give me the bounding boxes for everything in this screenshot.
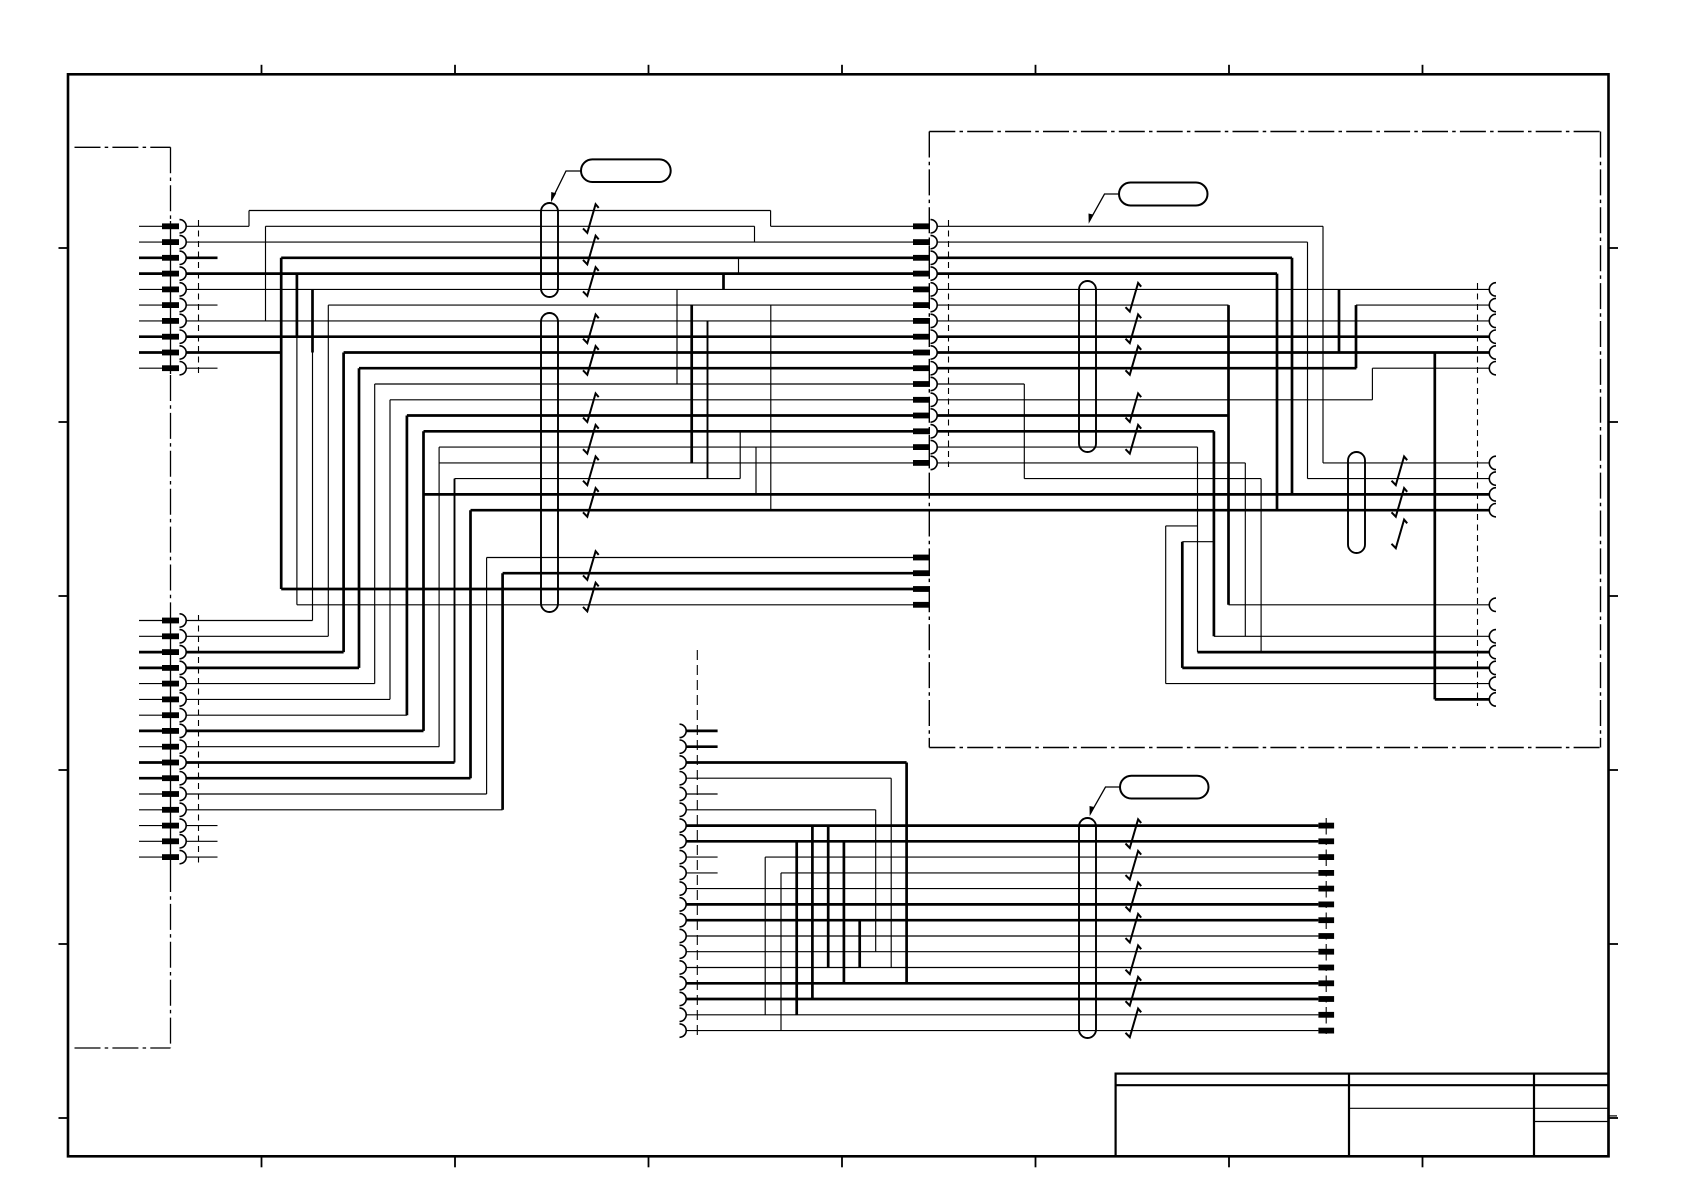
wire net44 P3.16 drop [937,463,1246,636]
cable boundary dashed line at P4 [696,650,698,1040]
wire net58 P4.14-P5.8 [686,935,1318,937]
wire stub P4.2 [686,745,718,748]
cable boundary dashed line at P1 [198,220,200,374]
wire net62 P4.15-P5.9 [686,951,1318,953]
wire net49 P4.4 crossover [686,778,891,967]
connector P2 (left-bottom, 16 pins) [139,614,186,866]
wire net40 P3.12 right [937,399,1373,401]
wire net7 row23 [281,588,913,591]
wire net64 P4.17-P5.11 [686,982,1318,985]
bus marks middle column [1126,283,1142,454]
wire net33 v1356 jumper [1355,305,1358,368]
wire net55 P4.11-P5.5 [686,888,1318,890]
wire net14 P2.3-row8 [344,353,913,653]
wire net43 P3.15-J4.2 [937,447,1490,652]
wire net29 P3.4-row18 [937,274,1278,511]
wire P2 pin12 lead run [186,793,487,795]
wire net4 P1.4-P3.4 [186,272,914,275]
wire net38 v1372 jumper [1371,368,1373,400]
wire P2 pin9 lead run [186,746,440,748]
wire stub P4.5 [686,793,718,795]
wire net63 P4.16-P5.10 [686,967,1318,969]
wire net42 P3.14-J4.1 [937,431,1490,636]
wire net35 P3.8-J1.4 [937,335,1490,338]
connector J4 arcs (right, 5 pins) [1489,630,1496,707]
wire net41 P3.13-J3 [937,305,1490,605]
wire net3 P1.7 riser to row0 [186,226,755,321]
wire stub P4.1 [686,730,718,733]
wire P2 pin10 lead run [186,761,455,764]
wire step cascade x754 [754,226,756,242]
wire net56 P4.12-P5.6 [686,903,1318,906]
wire net26 row7 [297,335,913,338]
wire net27 P3.2-J2.2 [937,242,1490,479]
connector P5 (bottom-right, 14 pins) [1318,823,1334,1034]
wire step cascade x738 [738,258,740,274]
wire net60 P4.19-P5.13 [686,841,1318,1015]
stub wire P2 pin15 [186,840,218,842]
module boundary dash-dot (left unit) [75,147,171,1048]
wire P2 pin1 lead run [186,620,313,622]
wire net32 row5 right [937,304,1490,306]
bus marks bottom column [1126,819,1142,1037]
wire net11 row4 from riser [313,289,914,620]
wire step cascade x723 [722,274,725,290]
wire net20 P2.9-row14 [439,447,913,747]
label balloon L2 [1089,183,1208,224]
wire net34 P3.7-J1.3 [937,320,1490,322]
wire net53 row40 [686,857,1318,1015]
wire net26 P3.1-J2.1 [937,226,1490,463]
wire net16 P2.5-row10 [375,384,913,684]
label balloon L3 [1090,776,1209,817]
connector J2 arcs (right, 4 pins) [1489,456,1496,517]
module boundary dash-dot box (right unit) [929,132,1600,748]
wire net10 row24 [297,604,913,606]
wire net29 row18 run [471,509,1490,512]
wire net23 P2.12-row21 [487,558,913,795]
cable boundary dashed line at P2 [198,615,200,866]
wire net18 P2.7-row12 [407,416,913,716]
cable group W5 [1079,818,1096,1038]
cable group W2 [541,313,558,612]
wire shift x677 [676,289,678,384]
wire shift x691 [690,305,693,463]
wire net25 row6 [266,320,914,322]
bus marks right column [1392,457,1408,549]
wire shift x707 [707,321,709,479]
cable group W1 [541,203,558,297]
connector P4 (bottom-middle, 20 pins) [680,724,687,1037]
wire net5 row2 from riser [281,258,913,589]
wire net52 P4.8-P5.2 [686,841,1318,983]
connector P3 lower terminals (4 pins) [913,555,930,608]
connector J1 arcs (right, 6 pins) [1489,283,1496,375]
wire net36 P3.9 right [937,351,1490,354]
wire net46 J1.5-J4.5 jumper [1435,353,1490,700]
wire net65 jog-J4.2 [1182,542,1489,668]
bus marks left column [583,204,599,611]
wire P2 pin13 lead run [186,809,503,811]
wire net28 row17 [424,493,1490,496]
title block [1116,1074,1617,1157]
wire net54 row41 [686,873,1318,1031]
wire net12 P1.5 run [186,288,313,290]
wire P2 pin8 lead run [186,730,424,733]
wire P2 pin6 lead run [186,698,391,700]
wire shift x740 [739,431,741,478]
wire net37 P3.10 right [937,367,1490,370]
wire stub P1.6 [186,304,218,306]
connector P5 center dashed line [1325,818,1327,1038]
cable group W4 [1348,452,1365,553]
wire stub P1.3 [186,256,218,259]
stub wire P2 pin16 [186,856,218,858]
wire P2 pin5 lead run [186,683,375,685]
wire net48 P4.3 crossover [686,763,907,984]
wire net66 jog-J4.4 [1166,526,1490,684]
wire P2 pin2 lead run [186,635,329,637]
wire net21 P2.10-row16 [455,479,741,763]
wire net19 P2.8-row13 [424,431,914,731]
wire net9 P1.8 run [186,335,297,338]
wire stub P1.10 [186,367,218,369]
wire P2 pin3 lead run [186,651,344,654]
connector P1 (left-top, 10 pins) [139,220,186,375]
wire net31 v1339 jumper [1338,289,1341,352]
wire shift x756 [755,447,757,494]
wire net45 row16 drop [1260,479,1262,652]
wire net17 P2.6-row11 [390,400,913,700]
wire net61 P4.20-P5.14 [686,1030,1318,1032]
connector J3 arc (right, 1 pin) [1489,598,1496,611]
wire net1 P1.1-P3.1 [186,211,914,227]
wire P2 pin4 lead run [186,667,360,670]
wire P2 pin7 lead run [186,714,407,716]
wire net51 P4.7-P5.1 [686,826,1318,968]
wire net57 P4.13-P5.7 [686,920,1318,967]
stub wire P2 pin14 [186,825,218,827]
label balloon L1 [551,159,671,202]
wire shift x770 [770,305,772,510]
connector P3 (middle, 16 pins) [913,220,937,470]
wire net27 row15 [439,462,913,464]
wire net13 P2.2-row5 [328,305,913,636]
wire net24 P2.13-row22 [503,573,913,810]
wire net6 P1.9 run [186,351,282,354]
wire net50 P4.6 crossover [686,810,876,952]
wire P2 pin11 lead run [186,777,471,780]
wire net15 P2.4-row9 [359,368,913,668]
wire net22 P2.11-row18 [469,510,472,778]
wire net59 P4.18-P5.12 [686,826,1318,999]
cable group W3 [1079,281,1096,452]
wire net8 riser x296 [296,274,299,605]
cable boundary dashed line at right arcs [1477,283,1479,706]
wire net39 P3.11 right [937,384,1262,479]
wire net30 P3.5-J1.1 [937,288,1490,290]
cable boundary dashed line at P3 [948,220,950,467]
wire net2 P1.2-P3.2 [186,241,914,243]
wire net28 P3.3-row17 [937,258,1293,495]
